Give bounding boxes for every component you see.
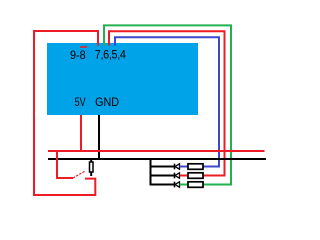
svg-text:9-8: 9-8 [70,49,86,62]
svg-text:7,6,5,4: 7,6,5,4 [95,49,127,62]
svg-text:GND: GND [95,97,119,110]
svg-text:5V: 5V [75,96,87,110]
